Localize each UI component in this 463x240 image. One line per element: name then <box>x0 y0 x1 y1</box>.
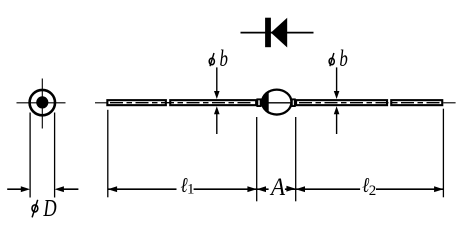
svg-text:b: b <box>220 47 228 72</box>
lead centerline stub right <box>443 102 455 104</box>
right lead segment 2 (after break) <box>391 100 442 105</box>
phiD dimension: left arrow <box>7 188 22 190</box>
end view: lead end circle (outer ring) <box>30 90 55 115</box>
A dimension line and arrows <box>257 186 266 192</box>
diode body (glass envelope ellipse) <box>262 90 291 115</box>
svg-text:A: A <box>269 174 285 201</box>
dimension extension line: left lead end <box>107 110 109 198</box>
svg-text:D: D <box>43 195 57 222</box>
phib right label: phi symbol <box>329 58 334 65</box>
phib right dimension: upper arrow <box>336 67 338 93</box>
cathode band (filled) <box>262 90 291 115</box>
phib left dimension: lower arrow <box>216 113 218 135</box>
phib right dimension: lower arrow <box>336 113 338 135</box>
phiD label: phi symbol <box>32 205 38 212</box>
right collar <box>292 99 295 106</box>
phib left dimension: upper arrow <box>216 67 218 93</box>
diode symbol: horizontal line <box>241 32 314 34</box>
end view: crosshair horizontal centerline <box>17 102 66 104</box>
svg-text:b: b <box>339 47 347 72</box>
diode symbol: cathode bar <box>265 18 271 48</box>
l1 dimension line and arrows <box>108 186 117 192</box>
end view: crosshair vertical centerline <box>41 79 43 129</box>
right lead dash-dot centerline <box>299 102 440 104</box>
right lead segment 1 <box>296 100 387 105</box>
centerline through body <box>261 102 293 104</box>
dimension extension line: body left <box>256 117 258 201</box>
end view: lead wire cross-section (filled dot) <box>36 96 48 108</box>
left lead segment 2 (after break) <box>170 100 256 105</box>
diode symbol: anode triangle <box>271 18 287 48</box>
phib left label: phi symbol <box>209 58 214 65</box>
svg-text:2: 2 <box>369 183 377 199</box>
phiD dimension: left extension line <box>29 113 31 198</box>
dimension extension line: right lead end <box>442 109 444 198</box>
l2 dimension line and arrows <box>296 186 305 192</box>
lead centerline stub left <box>95 102 107 104</box>
left lead segment 1 <box>107 100 166 105</box>
left collar <box>257 99 260 106</box>
phiD dimension: right extension line <box>54 113 56 198</box>
svg-text:1: 1 <box>187 182 195 198</box>
left lead dash-dot centerline <box>110 102 254 104</box>
dimension extension line: body right <box>295 117 297 201</box>
phiD dimension: right arrow <box>62 188 78 190</box>
